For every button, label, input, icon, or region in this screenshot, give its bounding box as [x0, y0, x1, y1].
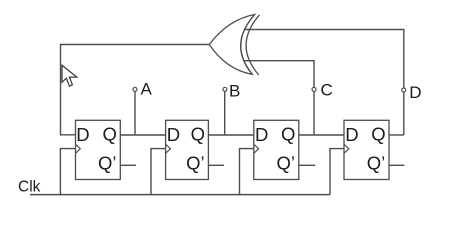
mouse cursor	[62, 65, 77, 86]
wire feedback from XOR output to FF1 D	[61, 45, 210, 135]
node B	[223, 87, 227, 91]
svg-text:Q’: Q’	[367, 152, 386, 173]
wire node A stub	[134, 90, 136, 136]
wire node B stub	[224, 90, 226, 135]
svg-text:D: D	[76, 124, 89, 145]
svg-text:Q’: Q’	[186, 152, 205, 173]
node C	[312, 87, 316, 91]
svg-text:Q: Q	[191, 123, 205, 144]
svg-text:D: D	[409, 83, 421, 102]
FF3 labels	[255, 123, 295, 173]
wire clk to FF3	[240, 149, 254, 195]
svg-text:C: C	[321, 81, 333, 100]
FF3 Q' stub	[299, 164, 315, 166]
svg-text:D: D	[255, 124, 268, 145]
wire FF1 Q to FF2 D	[120, 134, 165, 136]
xor gate U1 (left-facing)	[209, 15, 259, 76]
FF1 clock pin triangle	[76, 144, 81, 153]
FF2 clock pin triangle	[166, 144, 171, 153]
wire FF3 Q to FF4 D	[299, 134, 344, 136]
flip-flop FF3	[254, 120, 299, 179]
svg-text:Q: Q	[103, 123, 117, 144]
flip-flop FF4	[344, 120, 389, 179]
wire clk to FF2	[151, 149, 166, 195]
FF3 clock pin triangle	[254, 144, 259, 153]
wire clk to FF1	[60, 149, 75, 195]
svg-text:D: D	[167, 124, 180, 145]
svg-text:Q’: Q’	[98, 152, 117, 173]
svg-text:Q’: Q’	[277, 152, 296, 173]
node A	[133, 87, 137, 91]
node D	[402, 88, 406, 92]
wire FF4 Q to node D vertical	[389, 134, 404, 136]
wire FF2 Q to FF3 D	[208, 134, 253, 136]
FF2 labels	[167, 123, 205, 173]
FF1 Q' stub	[120, 164, 136, 166]
wire clk to FF4	[330, 149, 344, 195]
FF4 labels	[345, 123, 385, 173]
wire XOR bottom input to node C	[243, 61, 314, 135]
wire Clk bus	[30, 194, 330, 196]
FF2 Q' stub	[208, 164, 224, 166]
svg-text:B: B	[229, 82, 240, 101]
wire XOR top input to node D	[242, 30, 404, 136]
svg-text:Clk: Clk	[18, 179, 41, 196]
svg-text:Q: Q	[371, 123, 385, 144]
FF4 clock pin triangle	[344, 144, 349, 153]
svg-text:Q: Q	[281, 123, 295, 144]
FF1 labels	[76, 123, 117, 173]
svg-text:D: D	[345, 124, 358, 145]
flip-flop FF2	[166, 120, 209, 179]
FF4 Q' stub	[389, 164, 404, 166]
flip-flop FF1	[76, 120, 121, 179]
svg-text:A: A	[141, 80, 153, 99]
